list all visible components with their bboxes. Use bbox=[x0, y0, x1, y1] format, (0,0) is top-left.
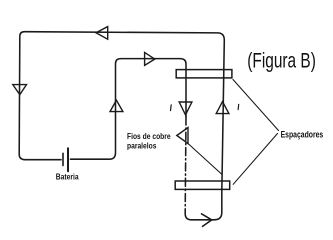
svg-text:paralelos: paralelos bbox=[127, 141, 156, 151]
svg-text:Espaçadores: Espaçadores bbox=[281, 129, 324, 139]
svg-text:Fios de cobre: Fios de cobre bbox=[127, 131, 171, 141]
svg-text:(Figura B): (Figura B) bbox=[247, 48, 316, 72]
svg-text:Bateria: Bateria bbox=[56, 172, 80, 182]
